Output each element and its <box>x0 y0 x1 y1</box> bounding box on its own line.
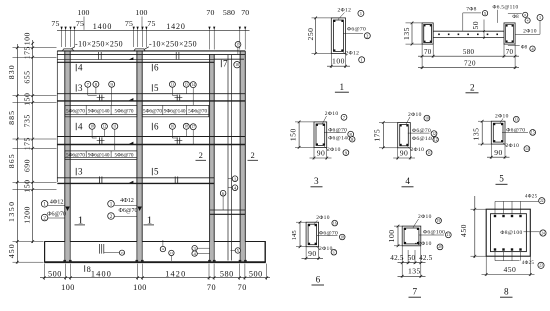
beam level 4 hatch marks <box>98 137 100 144</box>
svg-text:42.5: 42.5 <box>390 254 404 262</box>
section 7 beam outline <box>402 226 421 246</box>
section 7 height dim 100 <box>397 226 399 246</box>
section 3 width dim 90 <box>310 157 332 159</box>
svg-text:175: 175 <box>23 137 32 150</box>
circle 14 row1 <box>190 82 196 88</box>
section 6 beam outline <box>306 222 319 247</box>
svg-text:8: 8 <box>87 265 91 274</box>
svg-text:Φ6@70: Φ6@70 <box>47 212 66 218</box>
cut label 3 upper <box>75 84 77 91</box>
section 8 top label 4phi25 <box>495 200 538 202</box>
circle 9 <box>109 81 115 87</box>
svg-text:135: 135 <box>402 27 411 40</box>
svg-text:135: 135 <box>408 267 421 276</box>
svg-text:4: 4 <box>527 19 529 23</box>
svg-text:90: 90 <box>317 149 326 158</box>
svg-text:175: 175 <box>373 129 382 142</box>
svg-text:2: 2 <box>199 151 203 160</box>
label 2 phi6at70 left <box>41 214 48 221</box>
svg-text:5: 5 <box>154 83 159 93</box>
section 8 bottom bars <box>494 248 496 250</box>
svg-text:2Φ10: 2Φ10 <box>411 147 425 153</box>
svg-text:135: 135 <box>471 128 480 141</box>
top dimension line <box>57 29 250 31</box>
svg-text:75: 75 <box>147 19 155 28</box>
svg-text:2Φ10: 2Φ10 <box>418 241 432 247</box>
svg-text:24: 24 <box>541 231 545 235</box>
weld ticks on top beam <box>98 52 100 59</box>
top plate over column 1 <box>62 49 73 51</box>
section 2 label phi8 bottom <box>508 45 520 47</box>
section 7 bottom dims 42.5 50 42.5 <box>398 262 426 264</box>
svg-text:13: 13 <box>170 251 174 255</box>
circle 18 row2 <box>183 123 189 129</box>
svg-text:175: 175 <box>23 46 32 59</box>
svg-text:2Φ10: 2Φ10 <box>506 143 520 149</box>
top plate over column 2 <box>134 49 145 51</box>
svg-text:-10×250×250: -10×250×250 <box>149 40 197 49</box>
column 4 <box>240 51 245 242</box>
section 5 beam outline <box>491 121 505 144</box>
svg-text:3: 3 <box>78 167 83 177</box>
svg-text:6: 6 <box>524 13 526 17</box>
circle 12 <box>101 123 107 129</box>
section 4 width dim 90 <box>393 157 415 159</box>
column stubs inside foundation <box>65 242 70 262</box>
section 5 height dim 135 <box>481 121 483 144</box>
circle 19 top right <box>235 42 241 48</box>
svg-text:1350: 1350 <box>7 200 16 222</box>
section 8 top bars <box>494 215 496 217</box>
left dimension extension lines <box>13 47 57 49</box>
svg-text:90: 90 <box>494 148 503 157</box>
column 1 <box>65 51 70 242</box>
vertical bars in right bay <box>227 55 229 261</box>
foundation circle 3 <box>192 246 197 251</box>
slope arrow on beam level 2 <box>129 98 134 100</box>
svg-text:450: 450 <box>503 265 516 274</box>
svg-text:2: 2 <box>251 151 255 160</box>
cut arrow on column 2 <box>137 207 142 212</box>
svg-text:12: 12 <box>161 247 165 251</box>
circle 1 right bay <box>232 176 238 182</box>
circle 18 top right <box>234 61 240 67</box>
svg-text:150: 150 <box>288 128 297 141</box>
svg-text:4Φ25: 4Φ25 <box>522 261 535 266</box>
svg-text:19: 19 <box>236 43 240 47</box>
svg-text:21: 21 <box>447 233 451 237</box>
beam level 6 hatch marks <box>98 177 100 184</box>
svg-text:Φ8: Φ8 <box>512 15 519 20</box>
svg-text:Φ8@100: Φ8@100 <box>500 230 522 236</box>
svg-text:100: 100 <box>332 57 345 66</box>
svg-text:2Φ12: 2Φ12 <box>346 51 360 57</box>
cut label 4 upper <box>75 64 77 71</box>
svg-text:13: 13 <box>515 118 519 122</box>
svg-text:17: 17 <box>332 250 336 254</box>
svg-text:13: 13 <box>121 251 125 255</box>
circle 11 <box>112 123 118 129</box>
svg-text:100: 100 <box>61 283 75 292</box>
svg-text:75: 75 <box>76 19 84 28</box>
svg-text:10: 10 <box>90 125 94 129</box>
section 2 bottom dims 70 580 70 <box>418 55 519 57</box>
svg-text:2Φ10: 2Φ10 <box>523 29 537 35</box>
top beam bottom line D <box>57 61 214 63</box>
svg-text:8: 8 <box>504 287 509 297</box>
svg-text:5Φ6@70: 5Φ6@70 <box>143 108 162 114</box>
section 1 width dim 100 <box>327 65 350 67</box>
svg-text:42.5: 42.5 <box>419 254 433 262</box>
beam level 4 <box>57 136 245 138</box>
svg-text:14: 14 <box>525 147 529 151</box>
svg-text:7: 7 <box>413 287 418 297</box>
svg-text:580: 580 <box>223 8 235 17</box>
section 2 right end block <box>504 23 515 44</box>
section 2 left end block <box>422 23 433 44</box>
beam level 6 <box>57 177 214 179</box>
svg-text:150: 150 <box>23 179 32 192</box>
slope arrow on beam level 4 <box>129 142 134 144</box>
cut label 6 upper <box>151 64 153 71</box>
column 2 <box>137 51 142 242</box>
svg-text:580: 580 <box>463 48 475 56</box>
svg-text:70: 70 <box>207 283 216 292</box>
left inner dimension chain line <box>32 40 34 243</box>
svg-text:1400: 1400 <box>93 22 113 31</box>
svg-text:18: 18 <box>185 125 189 129</box>
bottom dimension extension lines <box>43 264 45 280</box>
svg-text:90: 90 <box>308 249 317 258</box>
svg-text:5: 5 <box>499 174 504 184</box>
section 1 height dim 250 <box>315 18 317 54</box>
svg-text:70: 70 <box>241 8 249 17</box>
svg-text:13: 13 <box>171 82 175 86</box>
section 5 width dim 90 <box>487 156 510 158</box>
svg-text:9Φ6@140: 9Φ6@140 <box>88 153 110 159</box>
svg-text:100: 100 <box>135 8 147 17</box>
svg-text:18: 18 <box>235 63 239 67</box>
svg-text:720: 720 <box>464 59 476 67</box>
svg-text:7Φ8: 7Φ8 <box>466 6 477 12</box>
section 2 total dim 720 <box>418 67 519 69</box>
svg-text:4: 4 <box>78 121 83 131</box>
svg-text:11: 11 <box>113 125 117 129</box>
circle 10 <box>89 123 95 129</box>
svg-text:4Φ25: 4Φ25 <box>525 195 538 200</box>
stirrup box beam level 5 left bay <box>65 151 137 160</box>
svg-text:690: 690 <box>23 159 32 172</box>
svg-text:12: 12 <box>434 138 438 142</box>
bottom dimension line <box>40 277 270 279</box>
cut arrow on column 1 <box>65 207 70 212</box>
svg-text:17: 17 <box>191 125 195 129</box>
section 4 height dim 175 <box>382 123 384 148</box>
section 6 height dim 145 <box>299 222 301 247</box>
weld ticks on top beam right bay <box>175 52 177 59</box>
svg-text:2Φ10: 2Φ10 <box>316 215 330 221</box>
foundation circle 13 <box>119 250 124 255</box>
svg-text:Φ6@140: Φ6@140 <box>412 136 434 142</box>
svg-text:23: 23 <box>539 264 543 268</box>
svg-text:22: 22 <box>540 199 544 203</box>
svg-text:20: 20 <box>438 245 442 249</box>
svg-text:450: 450 <box>459 224 468 237</box>
slope arrow on top beam <box>129 57 134 59</box>
svg-text:500: 500 <box>249 270 263 279</box>
svg-text:6: 6 <box>316 274 321 284</box>
section 3 beam outline <box>314 122 327 147</box>
left outer dimension chain line <box>16 44 18 264</box>
svg-text:Φ6.5@110: Φ6.5@110 <box>493 5 519 11</box>
top dimension extension lines <box>61 30 63 47</box>
svg-text:450: 450 <box>7 243 16 258</box>
foundation circle 13b <box>169 250 174 255</box>
cut label 4 lower <box>75 123 77 130</box>
svg-text:5Φ6@70: 5Φ6@70 <box>115 153 134 159</box>
section 2 height dim 135 <box>411 23 413 44</box>
foundation stirrup ticks <box>99 244 101 254</box>
circle 16 row2 <box>169 123 175 129</box>
section 4 beam outline <box>398 123 411 148</box>
svg-text:9Φ6@140: 9Φ6@140 <box>164 108 186 114</box>
cut label 5 upper <box>151 84 153 91</box>
svg-text:75: 75 <box>125 19 133 28</box>
stirrup box beam level 3 right bay <box>142 105 209 116</box>
label 2 phi6at70 mid <box>108 213 115 220</box>
beam level 2 <box>57 93 245 95</box>
circle 8 <box>93 81 99 87</box>
svg-text:75: 75 <box>51 19 59 28</box>
left edge line of frame <box>56 51 58 182</box>
svg-text:70: 70 <box>238 283 247 292</box>
section 2 web <box>433 30 504 32</box>
cut label 6 lower <box>151 123 153 130</box>
svg-text:50: 50 <box>471 21 480 30</box>
right bay top beam bottom line <box>214 58 244 60</box>
svg-text:14: 14 <box>191 83 195 87</box>
label 8 section mark at foundation <box>84 265 86 272</box>
top beam line B <box>57 53 245 55</box>
svg-text:5Φ6@70: 5Φ6@70 <box>66 108 85 114</box>
top beam line C <box>57 59 214 61</box>
svg-text:4Φ12: 4Φ12 <box>50 199 64 206</box>
svg-text:Φ6@70: Φ6@70 <box>119 208 138 214</box>
svg-text:2Φ10: 2Φ10 <box>327 147 341 153</box>
svg-text:-10×250×250: -10×250×250 <box>75 40 123 49</box>
svg-text:655: 655 <box>23 70 32 83</box>
label 1 4phi12 mid <box>108 201 115 208</box>
svg-text:1: 1 <box>340 82 345 92</box>
section 7 total dim 135 <box>398 275 426 277</box>
cut label 3 lower <box>75 168 77 175</box>
svg-text:100: 100 <box>387 229 396 242</box>
svg-text:Φ8: Φ8 <box>521 46 528 51</box>
svg-text:250: 250 <box>306 28 315 41</box>
section 8 height dim 450 <box>474 196 476 258</box>
top beam line A <box>57 50 245 52</box>
svg-text:150: 150 <box>23 93 32 106</box>
svg-text:Φ6@70: Φ6@70 <box>347 26 366 32</box>
section 1 column outline <box>331 18 345 54</box>
section 3 height dim 150 <box>298 122 300 147</box>
svg-text:1420: 1420 <box>165 270 186 279</box>
svg-text:1400: 1400 <box>91 270 112 279</box>
svg-text:70: 70 <box>506 48 514 56</box>
svg-text:6: 6 <box>154 121 159 131</box>
svg-text:100: 100 <box>23 32 32 45</box>
right bay lower beam <box>210 209 246 211</box>
foundation circle 5 <box>235 248 240 253</box>
section 8 bottom dim 450 <box>482 274 535 276</box>
section 6 width dim 90 <box>302 257 324 259</box>
svg-text:4: 4 <box>78 63 83 73</box>
circle 7 <box>85 81 91 87</box>
svg-text:70: 70 <box>206 8 214 17</box>
svg-text:580: 580 <box>220 270 234 279</box>
svg-text:5Φ6@70: 5Φ6@70 <box>66 153 85 159</box>
svg-text:3: 3 <box>314 176 319 186</box>
svg-text:2Φ10: 2Φ10 <box>319 246 333 252</box>
circle 17 row2 <box>190 124 196 130</box>
circle 4 right bay <box>232 185 238 191</box>
svg-text:7: 7 <box>223 58 228 68</box>
svg-text:16: 16 <box>333 221 337 225</box>
svg-text:735: 735 <box>23 114 32 127</box>
svg-text:4: 4 <box>405 176 410 186</box>
svg-text:15: 15 <box>531 131 535 135</box>
svg-text:5: 5 <box>154 167 159 177</box>
section 8 bottom label 4phi25 <box>495 260 520 262</box>
foundation circle 12 <box>160 246 165 251</box>
svg-text:90: 90 <box>400 149 409 158</box>
svg-text:6: 6 <box>154 63 159 73</box>
column 3 <box>210 54 215 241</box>
svg-text:100: 100 <box>133 283 147 292</box>
svg-text:865: 865 <box>7 153 16 168</box>
svg-text:50: 50 <box>408 254 416 262</box>
stirrup box beam level 3 left bay <box>65 105 137 116</box>
svg-text:1420: 1420 <box>166 22 186 31</box>
svg-text:9Φ6@140: 9Φ6@140 <box>88 108 110 114</box>
svg-text:3: 3 <box>78 83 83 93</box>
label 1 4phi12 left <box>41 201 48 208</box>
svg-text:885: 885 <box>7 110 16 125</box>
svg-text:2Φ10: 2Φ10 <box>325 111 339 117</box>
slope arrow on beam level 6 <box>129 181 134 183</box>
svg-text:Φ6@140: Φ6@140 <box>328 136 350 142</box>
beam level 2 hatch marks <box>98 95 100 101</box>
svg-text:70: 70 <box>424 48 432 56</box>
circle 6 right bay <box>220 190 226 196</box>
foundation circle 4 <box>192 251 197 256</box>
svg-text:10: 10 <box>425 116 429 120</box>
svg-text:1200: 1200 <box>23 206 32 224</box>
svg-text:4Φ12: 4Φ12 <box>120 197 134 204</box>
section 2 circle 1 and 2phi10 <box>537 15 543 21</box>
svg-text:11: 11 <box>427 151 431 155</box>
svg-text:15: 15 <box>185 82 189 86</box>
svg-text:100: 100 <box>77 8 89 17</box>
svg-text:2: 2 <box>470 83 475 93</box>
svg-text:2Φ10: 2Φ10 <box>495 114 509 120</box>
svg-text:18: 18 <box>340 235 344 239</box>
svg-text:500: 500 <box>48 270 62 279</box>
svg-text:16: 16 <box>171 125 175 129</box>
svg-text:19: 19 <box>437 219 441 223</box>
circle 15 row1 <box>183 81 189 87</box>
foundation beam outline <box>44 241 266 243</box>
svg-text:830: 830 <box>7 64 16 79</box>
svg-text:145: 145 <box>291 230 298 241</box>
circle 13 row1 <box>169 81 175 87</box>
cut label 7 <box>220 60 222 67</box>
cut label 5 lower <box>151 168 153 175</box>
svg-text:2Φ10: 2Φ10 <box>418 214 432 220</box>
section 8 column outline <box>486 209 530 256</box>
svg-text:5Φ6@70: 5Φ6@70 <box>115 108 134 114</box>
svg-text:12: 12 <box>103 125 107 129</box>
svg-text:5Φ6@70: 5Φ6@70 <box>188 108 207 114</box>
